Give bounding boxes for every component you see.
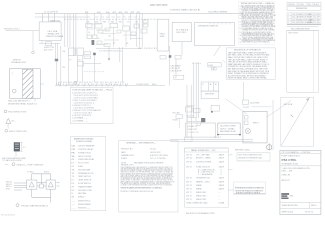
- svg-text:REV 4: REV 4: [311, 205, 316, 207]
- svg-text:FIELD WIRING POINT: FIELD WIRING POINT: [8, 111, 27, 113]
- relay K1: [110, 24, 118, 28]
- svg-text:F1: F1: [70, 60, 72, 62]
- inline device small box b: [193, 108, 200, 112]
- contact block row b: [93, 35, 98, 39]
- wire bottom boundary 1: [170, 139, 253, 141]
- wire link row a: [87, 24, 142, 45]
- dim arrow line: [251, 106, 271, 108]
- svg-text:CKT 07: CKT 07: [186, 166, 192, 168]
- svg-text:CIRCUIT BREAKER: CIRCUIT BREAKER: [78, 145, 95, 148]
- center schematic small components: [87, 20, 148, 39]
- rev section bar 2: [287, 27, 319, 31]
- dark contact dot: [169, 55, 172, 58]
- label left wires: [62, 50, 81, 69]
- wire dashed interlock: [84, 71, 105, 73]
- svg-text:PS4 CTRL: PS4 CTRL: [282, 158, 297, 162]
- svg-text:401 402 403 404 405 406 407 40: 401 402 403 404 405 406 407 408 409 410 …: [58, 82, 124, 84]
- bom header bar: [185, 148, 229, 152]
- wire drop x187: [186, 85, 188, 137]
- svg-text:TO MCC FDR: TO MCC FDR: [136, 84, 149, 86]
- svg-text:PROJECT NO: PROJECT NO: [121, 149, 133, 151]
- logo mark: [281, 193, 289, 199]
- svg-text:JB-1 FIELD TERM: JB-1 FIELD TERM: [220, 126, 236, 128]
- rev heavy line: [287, 23, 321, 25]
- svg-text:CB: CB: [72, 146, 76, 148]
- svg-text:SCHEMATIC E-401: SCHEMATIC E-401: [282, 162, 299, 165]
- corner dot left: [217, 134, 219, 136]
- wire drop x55.5: [55, 43, 57, 58]
- spare fuse box: [78, 62, 84, 67]
- svg-text:NEUTRAL: NEUTRAL: [78, 192, 86, 195]
- svg-text:TO MCC: TO MCC: [27, 172, 35, 174]
- svg-text:CONTROL PANEL LAYOUT A1: CONTROL PANEL LAYOUT A1: [170, 9, 201, 12]
- notes paragraph 2 box: [227, 48, 276, 80]
- wire drop x57.5: [57, 43, 59, 58]
- signature scribble: [235, 186, 264, 195]
- label JB1: [220, 126, 236, 133]
- svg-text:24VDC / 120VAC: 24VDC / 120VAC: [220, 127, 235, 130]
- wire neutral bus segments: [95, 16, 140, 18]
- svg-text:PRINTED COPIES ARE UNCONTRO: PRINTED COPIES ARE UNCONTROLLED: [121, 190, 154, 193]
- signature frame: [234, 182, 266, 195]
- label box C: [176, 28, 188, 33]
- wire drop x122.7: [122, 47, 124, 82]
- svg-text:CKT 19: CKT 19: [186, 195, 192, 197]
- svg-text:AUX CONT: AUX CONT: [44, 49, 53, 52]
- nameplate inner slit 3: [15, 148, 19, 149]
- list box 1 text: [72, 89, 112, 123]
- transformer T1 core hatched: [23, 69, 33, 98]
- wire riser x67.8: [67, 14, 69, 47]
- svg-text:REVISIONS: REVISIONS: [296, 8, 308, 10]
- svg-text:10HP: 10HP: [160, 36, 166, 38]
- small pair boxes: [211, 105, 219, 111]
- tick right of M2: [57, 182, 60, 184]
- title bottom rows: [282, 204, 317, 213]
- wire riser M1 top: [31, 174, 33, 180]
- leader diagonal 2: [267, 101, 291, 118]
- wire continue x56.5: [56, 61, 58, 85]
- rev title bar: [287, 7, 321, 11]
- title divider 1: [280, 165, 321, 167]
- dimension line nameplate: [16, 142, 23, 156]
- wire drop x273: [272, 100, 274, 150]
- svg-text:SPACE ONLY: SPACE ONLY: [196, 194, 207, 197]
- svg-text:24VDC DIST: 24VDC DIST: [188, 129, 198, 131]
- svg-text:DATE: DATE: [121, 151, 126, 154]
- junction box JB1: [218, 123, 240, 135]
- svg-text:PNL GND: PNL GND: [173, 113, 181, 115]
- wire stub 1: [14, 182, 27, 184]
- selector sub a: [211, 68, 213, 70]
- svg-text:CHKD JM: CHKD JM: [282, 174, 291, 176]
- rev rows text: [288, 13, 320, 24]
- terminal strip row: [96, 48, 141, 50]
- general info rows: [121, 149, 168, 167]
- aux contact left 2: [84, 56, 91, 59]
- wire drop x191.2: [190, 85, 192, 137]
- svg-text:CKT 17: CKT 17: [186, 192, 192, 194]
- dashed tail box D: [192, 63, 202, 65]
- svg-text:JOB NO: JOB NO: [288, 4, 295, 6]
- title divider 3: [280, 207, 321, 209]
- CT companion: [197, 121, 200, 125]
- void crossed box: [281, 97, 314, 146]
- wire riser mid: [41, 174, 43, 184]
- starter box M2: [46, 180, 55, 189]
- label nameplate caption: [2, 157, 26, 162]
- wire bottom boundary 2: [170, 140, 253, 142]
- relay ladder cluster mid: [160, 42, 184, 86]
- svg-text:C-111 SPARE —: C-111 SPARE — —: [72, 117, 88, 120]
- rev rows grid: [287, 13, 321, 24]
- panel box C: [172, 23, 191, 42]
- svg-text:DRAWING FILE: DRAWING FILE: [121, 154, 135, 157]
- wire shelf: [84, 63, 101, 65]
- svg-text:E-401 PS CTRL.DWG: E-401 PS CTRL.DWG: [150, 155, 168, 157]
- svg-text:CKT 11: CKT 11: [186, 181, 192, 183]
- svg-text:PANEL SCHEDULE — LP1: PANEL SCHEDULE — LP1: [191, 149, 216, 152]
- svg-text:15A/1P: 15A/1P: [219, 160, 225, 163]
- wire risers bus2: [87, 13, 142, 47]
- svg-text:GND: GND: [6, 189, 11, 191]
- svg-text:OL: OL: [88, 32, 90, 34]
- labels center cluster: [86, 21, 138, 45]
- svg-text:M2: M2: [126, 43, 128, 45]
- label box D: [198, 24, 219, 27]
- void arrowhead: [306, 98, 310, 102]
- legend symbol triangle warning: [6, 118, 11, 123]
- labels relay cluster: [171, 64, 183, 79]
- svg-text:16DI / 8DO: 16DI / 8DO: [176, 32, 186, 34]
- fuse block F2: [77, 48, 84, 56]
- svg-text:SPACE ONLY: SPACE ONLY: [196, 191, 207, 194]
- svg-text:KWH MTR: KWH MTR: [205, 94, 215, 96]
- junction dot dark: [211, 111, 213, 113]
- wire riser x70: [69, 14, 71, 47]
- aux contact left 1: [84, 52, 91, 55]
- wire drop x94.5 low: [94, 55, 96, 82]
- svg-text:PUSHBUTTON: PUSHBUTTON: [78, 152, 91, 154]
- label meter grid: [202, 83, 217, 95]
- svg-text:TOTAL CONNECTED LOAD: TOTAL CONNECTED LOAD: [186, 202, 208, 205]
- svg-text:TB-3 1..12: TB-3 1..12: [186, 116, 194, 118]
- wire feeder drop: [41, 40, 43, 43]
- legend symbol small circle 2: [5, 129, 8, 132]
- leader tick bom 3: [228, 189, 234, 191]
- wire diagonal b: [223, 60, 226, 63]
- svg-text:UP—: UP—: [12, 120, 16, 122]
- fuse block F1: [69, 48, 76, 56]
- svg-text:FROM THE PANEL FACE CONTROLLER: FROM THE PANEL FACE CONTROLLER KEYPAD.: [228, 77, 268, 80]
- title header bar: [280, 152, 321, 154]
- svg-text:FDR 4: FDR 4: [44, 172, 49, 174]
- svg-text:SHEET E-401: SHEET E-401: [282, 211, 294, 213]
- svg-text:SEQUENCE OF OPERATION: SEQUENCE OF OPERATION: [234, 49, 261, 52]
- relay K2: [123, 26, 130, 31]
- svg-text:SPARE: SPARE: [196, 187, 202, 190]
- svg-text:X1: X1: [98, 38, 100, 40]
- svg-text:SCALE AS NOTED: SCALE AS NOTED: [282, 204, 299, 207]
- wire drop x182: [181, 42, 183, 56]
- detail A diagram: [14, 174, 60, 203]
- leader triangle: [7, 124, 9, 129]
- wire riser x73.7: [73, 14, 75, 56]
- terminal rail box: [186, 123, 216, 137]
- svg-text:1 2 3 4 5 6 7 8: 1 2 3 4 5 6 7 8: [188, 132, 199, 134]
- svg-text:DETAIL A — PUMP STARTERS: DETAIL A — PUMP STARTERS: [17, 163, 45, 166]
- wire drop x119.8: [119, 47, 121, 62]
- wire drop x77.5: [77, 56, 79, 83]
- stamp box text: [239, 154, 264, 161]
- leader diagonal 1: [225, 99, 247, 114]
- svg-text:NOT FOR CONSTRUCTION: NOT FOR CONSTRUCTION: [239, 154, 263, 156]
- svg-text:SHIELD TERM POINT: SHIELD TERM POINT: [9, 131, 28, 133]
- svg-text:FLOAT CIRCUITS: FLOAT CIRCUITS: [196, 165, 211, 168]
- svg-text:SPACE ONLY: SPACE ONLY: [196, 198, 207, 201]
- field device box: [243, 111, 267, 142]
- bom table: [185, 148, 229, 207]
- list box 2 rows: [72, 145, 96, 210]
- wire drop x169.7: [169, 46, 171, 86]
- selector sub b: [214, 68, 216, 70]
- small box above field: [242, 100, 248, 104]
- corner dot right: [239, 134, 241, 136]
- svg-text:LEVEL SWITCH: LEVEL SWITCH: [78, 180, 92, 182]
- svg-text:20A/1P: 20A/1P: [219, 153, 225, 156]
- svg-text:SEE SHEET E-402: SEE SHEET E-402: [220, 131, 236, 133]
- wire drop x109: [108, 47, 110, 58]
- svg-text:1/4” = 1’-0” NOTED: 1/4” = 1’-0” NOTED: [150, 158, 166, 160]
- svg-text:EXISTING ——: EXISTING ——: [78, 207, 91, 209]
- svg-text:C-112 SPARE —: C-112 SPARE — —: [72, 120, 88, 123]
- ground stub feeder: [32, 51, 35, 54]
- transformer T1 enclosure: [10, 69, 41, 99]
- rev table header text: [288, 4, 319, 6]
- svg-text:CKT 01: CKT 01: [186, 154, 192, 156]
- contact CR1: [160, 56, 166, 60]
- svg-text:E-401: E-401: [314, 4, 319, 6]
- svg-text:CKT 05: CKT 05: [186, 161, 192, 163]
- void diagonal: [281, 98, 310, 147]
- wire drop x193.7: [193, 62, 195, 118]
- contact CR2: [175, 56, 181, 60]
- svg-text:FROM MCC FDR 4: FROM MCC FDR 4: [4, 28, 20, 30]
- nameplate detail block: [14, 142, 20, 151]
- svg-text:WIRING PANEL: WIRING PANEL: [78, 203, 91, 206]
- wire bottom rail schematic: [55, 85, 165, 87]
- svg-text:4: 4: [288, 22, 289, 24]
- wire drop x269: [268, 143, 270, 151]
- svg-text:SCALE: SCALE: [121, 157, 128, 160]
- list box 1: [70, 87, 113, 123]
- arrow down x109: [108, 58, 110, 61]
- wire drop x176: [175, 59, 177, 75]
- detail caption top: [5, 163, 8, 165]
- svg-text:HEATER — ENCL: HEATER — ENCL: [196, 180, 210, 183]
- wire drop M2: [50, 189, 52, 202]
- bom rows: [186, 153, 225, 215]
- svg-text:1 2 3 4 5 6 7 8 9 10 11 12: 1 2 3 4 5 6 7 8 9 10 11 12: [99, 50, 123, 52]
- general info paragraph: [121, 166, 175, 187]
- svg-text:CONTROL RELAY: CONTROL RELAY: [78, 148, 94, 151]
- svg-text:8.4KVA: 8.4KVA: [219, 202, 225, 205]
- wire riser M2 top: [50, 174, 52, 180]
- title cell divider v: [309, 203, 311, 209]
- svg-text:PB2: PB2: [111, 21, 114, 23]
- svg-text:OPERATOR STATION: OPERATOR STATION: [198, 24, 219, 27]
- svg-text:GENERAL — INFORMATION —: GENERAL — INFORMATION —: [126, 142, 157, 145]
- label terminal row: [99, 48, 158, 52]
- interposing block: [40, 184, 44, 188]
- svg-text:M1: M1: [109, 35, 111, 37]
- title divider 2: [280, 202, 321, 204]
- coil box: [174, 75, 184, 79]
- svg-text:RECEPT — PANEL: RECEPT — PANEL: [196, 156, 211, 159]
- svg-text:——: ——: [72, 204, 76, 206]
- label shunt aux: [44, 47, 55, 52]
- motor cross a: [246, 129, 250, 133]
- svg-text:REF DWGS: REF DWGS: [288, 32, 298, 34]
- ground symbol circle: [74, 81, 77, 84]
- wire link top: [37, 182, 46, 184]
- svg-text:LT2: LT2: [135, 21, 138, 23]
- svg-text:REVIEW COPY: REVIEW COPY: [121, 165, 134, 167]
- labels bottom rail: [56, 82, 129, 86]
- label under T1: [8, 100, 38, 105]
- svg-text:W: W: [215, 84, 217, 86]
- svg-text:C — HIGH ALARM: C — HIGH ALARM: [198, 173, 213, 176]
- svg-text:6-20: 6-20: [292, 22, 295, 24]
- svg-text:NO | DESCRIPTION: NO | DESCRIPTION: [291, 28, 310, 30]
- svg-text:CR2 STOP: CR2 STOP: [171, 68, 181, 70]
- rev body box: [287, 30, 319, 92]
- svg-text:SELECTOR SW: SELECTOR SW: [78, 156, 91, 158]
- svg-text:MAIN DISC: MAIN DISC: [50, 20, 61, 23]
- panel box B: [157, 19, 169, 51]
- svg-text:WIRING FIELD: WIRING FIELD: [78, 200, 91, 202]
- wire drop x198.6: [198, 62, 200, 118]
- junction dark TB: [93, 53, 96, 56]
- wire stub 2: [14, 184, 27, 186]
- labels bottom rail right: [136, 84, 157, 86]
- svg-text:15A/1P: 15A/1P: [219, 165, 225, 168]
- inline device small box 2: [185, 137, 193, 141]
- selector component: [208, 63, 221, 67]
- svg-text:SPARE: SPARE: [196, 184, 202, 187]
- bell stem: [268, 145, 270, 150]
- svg-text:APPD TK: APPD TK: [282, 179, 291, 182]
- svg-text:22-104: 22-104: [150, 149, 156, 151]
- svg-text:SEE NOTE 3 FOR BREAKER TY: SEE NOTE 3 FOR BREAKER TYPES: [186, 212, 215, 215]
- CT dark block: [201, 118, 205, 122]
- svg-text:CITY OF EXAMPLE — UTILITIE: CITY OF EXAMPLE — UTILITIES: [282, 151, 311, 154]
- svg-text:SHIELD: SHIELD: [78, 197, 85, 199]
- svg-text:SYMBOL LEGEND: SYMBOL LEGEND: [76, 141, 93, 143]
- svg-text:20A/1P: 20A/1P: [219, 180, 225, 183]
- list box 2 header: [74, 138, 94, 143]
- label box B: [160, 34, 167, 38]
- svg-text:— — — — — —: — — — — — —: [239, 159, 252, 161]
- svg-text:CKT 15: CKT 15: [186, 188, 192, 190]
- wire top rail: [32, 173, 51, 175]
- svg-text:N BUS: N BUS: [173, 120, 179, 122]
- svg-text:TYPICAL STARTER DETAIL B: TYPICAL STARTER DETAIL B: [21, 204, 49, 207]
- list box 2: [70, 137, 105, 211]
- triangle in M1: [29, 182, 34, 187]
- aux device boxes center: [86, 24, 148, 47]
- transformer dark mark: [92, 40, 95, 45]
- svg-text:TRANSFORMER: TRANSFORMER: [78, 185, 93, 188]
- wire link bottom: [37, 185, 40, 187]
- svg-text:SS1: SS1: [119, 21, 122, 23]
- title block outer: [280, 150, 321, 214]
- svg-text:PB1: PB1: [103, 22, 106, 24]
- svg-text:20A/1P: 20A/1P: [219, 156, 225, 159]
- svg-text:GROUND COND: GROUND COND: [78, 190, 92, 192]
- svg-text:FU-3 FU-4: FU-3 FU-4: [187, 105, 195, 107]
- tick right of M2 b: [57, 185, 60, 187]
- svg-text:TB-4 FIELD WIRING: TB-4 FIELD WIRING: [208, 11, 228, 13]
- label terminal rail: [188, 125, 199, 134]
- wire drop x60.8: [60, 46, 62, 86]
- field sub box 2: [244, 121, 248, 125]
- contact block row: [87, 35, 92, 39]
- starter box M1: [27, 180, 37, 189]
- wire drop x68.3: [67, 56, 69, 86]
- triangle in M2: [48, 182, 53, 187]
- leader tick bom 2: [228, 169, 232, 170]
- svg-text:FLOW SWITCH: FLOW SWITCH: [78, 183, 91, 185]
- svg-text:MOUNTING DETAIL SCALE 1:4: MOUNTING DETAIL SCALE 1:4: [8, 102, 38, 105]
- wire stub x243: [243, 82, 245, 100]
- ticks box D top: [210, 23, 230, 25]
- rev table header row: [287, 3, 321, 6]
- node labels along top bus: [44, 4, 228, 14]
- svg-text:PLOT 6-20 14:02: PLOT 6-20 14:02: [1, 215, 15, 217]
- wire riser rectA 1: [42, 13, 44, 22]
- wire diagonal a: [214, 46, 221, 56]
- wire drop M1: [31, 189, 33, 197]
- svg-text:TB1·1·2·3·4·5·6·7·8·9·10·11·12: TB1·1·2·3·4·5·6·7·8·9·10·11·12·N·PE·SH·X…: [56, 84, 129, 86]
- svg-text:CKT 21: CKT 21: [186, 199, 192, 201]
- wire link bottom b: [44, 185, 47, 187]
- svg-text:CKT 13: CKT 13: [186, 185, 192, 187]
- wire stub 4: [14, 189, 22, 191]
- svg-text:PILOT LIGHT: PILOT LIGHT: [78, 163, 90, 165]
- aux block 1: [143, 20, 148, 23]
- svg-text:RELEASED FOR A QUICK REVIE: RELEASED FOR A QUICK REVIEW: [134, 161, 163, 164]
- svg-text:X2: X2: [113, 43, 115, 45]
- inline device small box: [185, 107, 192, 112]
- wire drop x196.2: [195, 62, 197, 118]
- nameplate inner slit 1: [15, 144, 19, 145]
- svg-text:20A/1P: 20A/1P: [219, 184, 225, 187]
- field motor circle: [245, 129, 250, 134]
- meter grid box: [201, 82, 219, 99]
- svg-text:WWW.EXAMPLEENGINEERING.COM/E40: WWW.EXAMPLEENGINEERING.COM/E401: [121, 187, 163, 190]
- leader tick bom 1: [228, 154, 232, 155]
- svg-text:PMP-1: PMP-1: [253, 122, 259, 124]
- svg-text:DIN RAIL TB: DIN RAIL TB: [188, 125, 199, 128]
- field sub box 1: [244, 116, 248, 119]
- wire neutral bus: [35, 16, 90, 18]
- main disconnect enclosure A: [39, 13, 61, 40]
- nameplate inner slit 2: [15, 146, 19, 147]
- spare tb wire: [178, 118, 180, 128]
- svg-text:CKT 09: CKT 09: [186, 177, 192, 179]
- svg-text:CONDUIT AND WIRE SCHEDULE: CONDUIT AND WIRE SCHEDULE — PNL A: [72, 89, 112, 92]
